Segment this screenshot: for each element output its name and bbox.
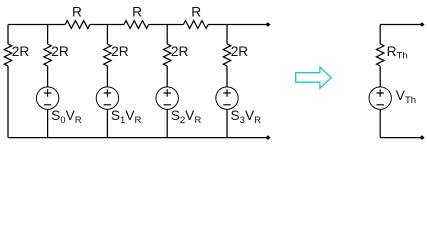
wire branch 2 lower lead to bottom rail bbox=[106, 109, 108, 137]
svg-text:R: R bbox=[132, 4, 142, 19]
source S2VR plus sign bbox=[164, 89, 171, 96]
svg-text:S1VR: S1VR bbox=[111, 108, 142, 126]
resistor 2R (branch 4) bbox=[223, 44, 230, 66]
resistor R3 (top, value R) bbox=[183, 21, 208, 29]
wire branch 4 lower lead to bottom rail bbox=[226, 109, 228, 137]
source S2VR minus sign bbox=[164, 104, 171, 106]
wire left rail lower lead to bottom rail bbox=[7, 66, 9, 138]
wire bottom rail of Thevenin circuit bbox=[380, 137, 420, 139]
wire branch 3 upper lead from top rail bbox=[166, 25, 168, 45]
wire left rail upper lead bbox=[7, 25, 9, 45]
voltage source S2VR circle bbox=[156, 87, 178, 109]
svg-text:2R: 2R bbox=[111, 44, 129, 59]
source S0VR plus sign bbox=[44, 89, 51, 96]
wire VTh lower lead bbox=[379, 109, 381, 137]
resistor RTh bbox=[377, 44, 384, 66]
wire branch 3 lower lead to bottom rail bbox=[166, 109, 168, 137]
wire branch 1 upper lead from top rail bbox=[47, 25, 49, 45]
svg-text:R: R bbox=[191, 4, 201, 19]
node: lower output terminal dot (Thevenin circuit) bbox=[419, 135, 424, 140]
svg-text:R: R bbox=[72, 4, 82, 19]
source VTh minus sign bbox=[377, 104, 384, 106]
resistor R1 (top, value R) bbox=[65, 21, 90, 29]
svg-text:S0VR: S0VR bbox=[51, 108, 82, 126]
arrow: Thevenin equivalence (cyan block arrow) bbox=[296, 67, 332, 88]
wire branch 1 between 2R and source bbox=[47, 66, 49, 87]
node: upper output terminal dot (Thevenin circuit) bbox=[419, 22, 424, 27]
wire branch 2 between 2R and source bbox=[106, 66, 108, 87]
source S0VR minus sign bbox=[44, 104, 51, 106]
wire top rail segment (R1 to R2, through node at branch 2) bbox=[90, 24, 124, 26]
voltage source S3VR circle bbox=[216, 87, 238, 109]
svg-text:2R: 2R bbox=[231, 44, 249, 59]
resistor 2R (branch 3) bbox=[164, 44, 171, 66]
wire bottom rail (ground return) bbox=[8, 137, 266, 139]
svg-text:S2VR: S2VR bbox=[171, 108, 202, 126]
svg-text:VTh: VTh bbox=[396, 88, 416, 106]
resistor 2R (leftmost rail) bbox=[4, 44, 11, 66]
svg-text:S3VR: S3VR bbox=[231, 108, 262, 126]
wire between RTh and VTh bbox=[379, 66, 381, 87]
source S3VR plus sign bbox=[223, 89, 230, 96]
wire branch 4 upper lead from top rail bbox=[226, 25, 228, 45]
wire branch 4 between 2R and source bbox=[226, 66, 228, 87]
svg-text:2R: 2R bbox=[12, 44, 30, 59]
wire top rail segment (left corner to R1) bbox=[8, 24, 65, 26]
wire top rail segment (R3 to output terminal) bbox=[208, 24, 266, 26]
svg-text:2R: 2R bbox=[171, 44, 189, 59]
wire branch 1 lower lead to bottom rail bbox=[47, 109, 49, 137]
resistor 2R (branch 1) bbox=[44, 44, 51, 66]
voltage source S0VR circle bbox=[36, 87, 58, 109]
wire branch 3 between 2R and source bbox=[166, 66, 168, 87]
wire RTh branch upper lead bbox=[379, 25, 381, 45]
voltage source S1VR circle bbox=[96, 87, 118, 109]
source VTh plus sign bbox=[377, 89, 384, 96]
svg-text:2R: 2R bbox=[51, 44, 69, 59]
wire RTh branch top rail to upper terminal bbox=[380, 24, 420, 26]
voltage source VTh circle bbox=[369, 87, 391, 109]
node: upper output terminal dot (left circuit) bbox=[265, 22, 270, 27]
source S1VR minus sign bbox=[104, 104, 111, 106]
wire branch 2 upper lead from top rail bbox=[106, 25, 108, 45]
source S3VR minus sign bbox=[223, 104, 230, 106]
resistor R2 (top, value R) bbox=[124, 21, 149, 29]
node: lower output terminal dot (left circuit) bbox=[265, 135, 270, 140]
svg-text:RTh: RTh bbox=[387, 44, 408, 62]
wire top rail segment (R2 to R3, through node at branch 3) bbox=[149, 24, 184, 26]
source S1VR plus sign bbox=[104, 89, 111, 96]
resistor 2R (branch 2) bbox=[104, 44, 111, 66]
